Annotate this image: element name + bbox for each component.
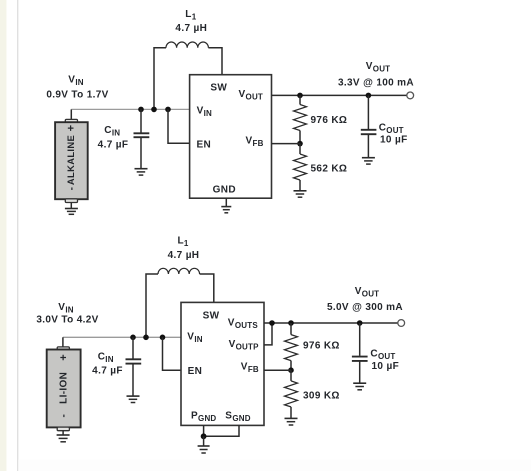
ground (R4, bottom) <box>285 418 298 425</box>
label VIN (top input) <box>46 74 108 100</box>
wire PGND (bottom) <box>203 425 205 436</box>
resistor R4 309K (bottom) <box>285 370 298 418</box>
label CIN (bottom) <box>92 351 123 376</box>
svg-text:-: - <box>59 414 70 418</box>
node dot COUT (bottom) <box>357 320 363 326</box>
resistor R1 976K (top) <box>294 95 307 143</box>
ground (GND pin, top IC) <box>221 198 231 212</box>
svg-text:SW: SW <box>210 82 227 93</box>
bottom faint band <box>18 460 531 471</box>
label VOUT (top output) <box>338 61 414 88</box>
node dot VOUTS/VOUTP junction <box>269 320 275 326</box>
ground (R2, top) <box>294 191 307 197</box>
svg-text:4.7 µH: 4.7 µH <box>175 23 207 34</box>
svg-text:4.7 µF: 4.7 µF <box>98 139 129 150</box>
svg-text:10 µF: 10 µF <box>380 135 408 146</box>
ground (PGND/SGND) <box>198 436 210 453</box>
wire VFB (top) <box>272 143 301 145</box>
wire VOUTP link (bottom) <box>264 323 272 345</box>
svg-text:4.7 µF: 4.7 µF <box>92 365 123 376</box>
node dot R-divider top (bottom) <box>288 320 294 326</box>
svg-text:976 KΩ: 976 KΩ <box>303 340 340 351</box>
label L1 (bottom) <box>168 235 200 261</box>
wire VIN rail (bottom) <box>63 336 181 338</box>
label COUT (top) <box>379 123 408 146</box>
battery BT2 LI-ION <box>47 337 81 430</box>
node dot EN (top) <box>165 107 171 113</box>
svg-text:976 KΩ: 976 KΩ <box>311 115 348 126</box>
node dot COUT (top) <box>366 93 372 99</box>
label VIN (bottom input) <box>36 302 98 326</box>
node dot L1 leg (bottom) <box>143 335 149 341</box>
svg-text:4.7 µH: 4.7 µH <box>168 250 200 261</box>
label L1 (top) <box>175 9 207 34</box>
op IC U2 (bottom converter) <box>181 302 264 425</box>
capacitor CIN (bottom) <box>126 337 142 396</box>
vertical rule <box>17 0 18 471</box>
wire VOUT rail (bottom) <box>264 322 398 324</box>
inductor L1 (top) <box>154 48 166 110</box>
svg-text:GND: GND <box>213 185 236 196</box>
terminal VOUT (top) <box>407 92 414 99</box>
svg-text:-: - <box>66 187 77 191</box>
capacitor COUT (top) <box>361 95 377 157</box>
node dot PGND/SGND junction <box>201 433 207 439</box>
wire VFB (bottom) <box>264 369 291 371</box>
inductor L1 (bottom) <box>146 274 158 337</box>
left margin tint strip <box>0 0 7 471</box>
resistor R2 562K (top) <box>294 144 307 191</box>
label VOUT (bottom output) <box>327 286 403 313</box>
ground (CIN, bottom) <box>127 396 140 402</box>
node dot CIN (top) <box>138 107 144 113</box>
svg-text:10 µF: 10 µF <box>372 361 400 372</box>
svg-text:3.0V To 4.2V: 3.0V To 4.2V <box>36 314 98 325</box>
capacitor CIN (top) <box>134 109 150 168</box>
svg-text:ALKALINE: ALKALINE <box>65 135 76 185</box>
node dot CIN (bottom) <box>130 335 136 341</box>
ground (battery, bottom) <box>57 431 70 442</box>
svg-text:5.0V @ 300 mA: 5.0V @ 300 mA <box>327 302 403 313</box>
node dot L1 leg (top) <box>151 107 157 113</box>
wire SGND (bottom) <box>204 425 239 436</box>
ground (CIN, top) <box>135 169 148 175</box>
label CIN (top) <box>98 125 129 151</box>
svg-text:0.9V To 1.7V: 0.9V To 1.7V <box>46 90 108 101</box>
node dot R-divider top (top) <box>297 93 303 99</box>
svg-text:SW: SW <box>203 311 220 322</box>
wire VOUT rail (top) <box>272 94 407 96</box>
wire EN (bottom) <box>163 337 182 370</box>
label COUT (bottom) <box>370 348 399 372</box>
ground (COUT, top) <box>362 158 375 164</box>
ground (battery, top) <box>65 203 78 215</box>
svg-text:+: + <box>66 125 78 132</box>
svg-text:562 KΩ: 562 KΩ <box>311 164 348 175</box>
terminal VOUT (bottom) <box>398 320 405 327</box>
capacitor COUT (bottom) <box>352 323 368 383</box>
wire EN (top) <box>168 109 190 143</box>
svg-text:EN: EN <box>197 139 212 150</box>
svg-text:EN: EN <box>188 366 203 377</box>
svg-text:LI-ION: LI-ION <box>59 372 70 404</box>
svg-text:309 KΩ: 309 KΩ <box>303 390 340 401</box>
node dot EN (bottom) <box>160 335 166 341</box>
svg-text:+: + <box>58 354 70 361</box>
battery BT1 ALKALINE <box>55 109 88 202</box>
wire VIN rail (top) <box>71 108 189 110</box>
op IC U1 (top converter) <box>190 75 272 199</box>
node dot VFB (bottom) <box>288 367 294 373</box>
ground (COUT, bottom) <box>353 383 366 390</box>
node dot VFB (top) <box>297 141 303 147</box>
svg-text:3.3V @ 100 mA: 3.3V @ 100 mA <box>338 77 414 88</box>
resistor R3 976K (bottom) <box>285 323 298 370</box>
